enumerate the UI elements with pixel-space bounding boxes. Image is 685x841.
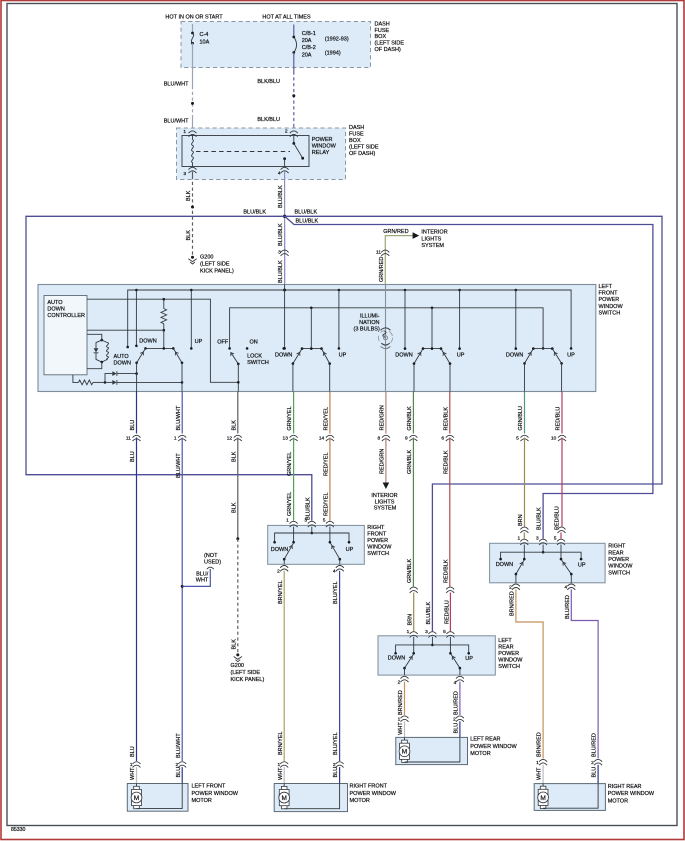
junction BLU/BLK main bbox=[283, 215, 286, 218]
svg-text:20A: 20A bbox=[302, 52, 312, 58]
resistor R2 (controller output) bbox=[73, 375, 106, 385]
svg-text:POWER: POWER bbox=[498, 651, 519, 657]
wire RED/GRN pin 8 stub bbox=[385, 392, 387, 434]
label LEFT FRONT POWER WINDOW SWITCH bbox=[599, 284, 624, 317]
svg-text:WHT: WHT bbox=[278, 767, 284, 780]
wire BLU/BLK second feed to right rear switch pin 3 bbox=[285, 216, 653, 538]
right rear power window motor box bbox=[534, 784, 605, 811]
svg-text:2: 2 bbox=[285, 129, 288, 135]
svg-text:RIGHT REAR: RIGHT REAR bbox=[608, 784, 642, 790]
svg-text:FUSE: FUSE bbox=[349, 131, 364, 137]
svg-text:3: 3 bbox=[536, 535, 539, 541]
label DASH FUSE BOX (LEFT SIDE OF DASH) top bbox=[375, 21, 405, 53]
svg-text:14: 14 bbox=[319, 436, 325, 442]
connector pin 10 (RED/BLU) below left front switch bbox=[551, 435, 566, 441]
auto down controller box bbox=[44, 296, 87, 375]
svg-text:2: 2 bbox=[398, 680, 401, 686]
wire BLK/BLU breaker to relay pin 2 bbox=[257, 53, 295, 132]
left rear power window switch box bbox=[378, 636, 495, 675]
svg-text:RELAY: RELAY bbox=[312, 150, 330, 156]
svg-text:WINDOW: WINDOW bbox=[498, 657, 523, 663]
illumination lamps (3 bulbs) bbox=[378, 285, 392, 392]
svg-text:BLU/BLK: BLU/BLK bbox=[305, 497, 311, 520]
svg-text:5: 5 bbox=[554, 535, 557, 541]
svg-text:WINDOW: WINDOW bbox=[312, 144, 337, 150]
svg-text:1: 1 bbox=[398, 717, 401, 723]
svg-text:BLU/RED: BLU/RED bbox=[565, 595, 571, 619]
svg-text:3: 3 bbox=[183, 171, 186, 177]
right rear switch arm DOWN side bbox=[515, 560, 525, 583]
svg-text:10: 10 bbox=[551, 436, 557, 442]
svg-text:(3 BULBS): (3 BULBS) bbox=[354, 326, 380, 332]
svg-text:WINDOW: WINDOW bbox=[367, 545, 392, 551]
svg-text:INTERIOR: INTERIOR bbox=[371, 493, 397, 499]
svg-text:BRN: BRN bbox=[518, 514, 524, 526]
svg-text:HOT AT ALL TIMES: HOT AT ALL TIMES bbox=[262, 14, 311, 20]
svg-text:12: 12 bbox=[227, 436, 233, 442]
svg-text:GRN/BLK: GRN/BLK bbox=[407, 450, 413, 474]
svg-text:BLK: BLK bbox=[231, 451, 237, 462]
label DASH FUSE BOX (LEFT SIDE OF DASH) relay bbox=[349, 125, 379, 157]
connector pin 11 (BLU) below left front switch bbox=[126, 435, 141, 441]
right front motor wire connector BLU (pin 2) bbox=[333, 762, 344, 784]
svg-text:3: 3 bbox=[425, 629, 428, 635]
svg-text:M: M bbox=[281, 795, 286, 802]
svg-text:MOTOR: MOTOR bbox=[350, 798, 370, 804]
svg-text:BLU: BLU bbox=[454, 723, 460, 734]
motor M left rear bbox=[399, 737, 460, 762]
svg-text:BLU/RED: BLU/RED bbox=[454, 691, 460, 715]
svg-text:USED): USED) bbox=[204, 560, 221, 566]
svg-text:RED/BLK: RED/BLK bbox=[443, 559, 449, 583]
right rear switch pin 5 entry bbox=[554, 535, 565, 545]
svg-text:BLU/YEL: BLU/YEL bbox=[333, 581, 339, 604]
svg-text:WINDOW: WINDOW bbox=[608, 564, 633, 570]
svg-text:4: 4 bbox=[454, 680, 457, 686]
right rear switch pin 1 entry bbox=[518, 535, 529, 545]
node main feed into box (pin 3 entry) bbox=[283, 285, 286, 350]
label GRN/BLU above pin 5 bbox=[518, 406, 524, 430]
svg-text:BLK: BLK bbox=[186, 190, 192, 201]
label LEFT REAR POWER WINDOW MOTOR bbox=[470, 736, 517, 757]
label GRN/YEL above pin 13 bbox=[287, 406, 293, 430]
svg-text:INTERIOR: INTERIOR bbox=[421, 229, 447, 235]
label RED/YEL above pin 14 bbox=[324, 407, 330, 431]
label GRN/BLK above pin 9 bbox=[407, 406, 413, 430]
svg-text:BLK: BLK bbox=[186, 230, 192, 241]
svg-text:UP: UP bbox=[567, 353, 575, 359]
svg-text:POWER: POWER bbox=[367, 538, 388, 544]
connector pin 14 (RED/YEL) below left front switch bbox=[319, 435, 334, 441]
svg-text:BOX: BOX bbox=[349, 138, 361, 144]
svg-text:BLK: BLK bbox=[231, 639, 237, 650]
svg-text:BOX: BOX bbox=[375, 34, 387, 40]
label RIGHT FRONT POWER WINDOW MOTOR bbox=[350, 784, 397, 805]
wire RED/BLK pin 6 to left rear switch pin 5 (becomes RED/BLU) bbox=[443, 438, 454, 632]
svg-text:BRN/RED: BRN/RED bbox=[398, 690, 404, 715]
connector pin 13 (GRN/YEL) below left front switch bbox=[283, 435, 298, 441]
right front window control rocker bbox=[292, 308, 331, 392]
svg-text:20A: 20A bbox=[302, 38, 312, 44]
wire GRN/BLU pin 5 stub bbox=[524, 392, 526, 434]
label RED/GRN above pin 8 bbox=[380, 405, 386, 430]
svg-text:BRN/RED: BRN/RED bbox=[537, 732, 543, 757]
svg-text:C/B-2: C/B-2 bbox=[302, 45, 316, 51]
svg-text:SWITCH: SWITCH bbox=[608, 570, 630, 576]
svg-text:UP: UP bbox=[346, 547, 354, 553]
svg-text:5: 5 bbox=[323, 518, 326, 524]
svg-text:DASH: DASH bbox=[375, 21, 390, 27]
svg-text:2: 2 bbox=[277, 569, 280, 575]
svg-text:POWER: POWER bbox=[599, 297, 620, 303]
svg-text:SYSTEM: SYSTEM bbox=[421, 243, 444, 249]
svg-text:BLU/RED: BLU/RED bbox=[592, 733, 598, 757]
relay coil bbox=[192, 136, 194, 167]
svg-text:(LEFT SIDE: (LEFT SIDE bbox=[349, 144, 379, 150]
svg-text:DASH: DASH bbox=[349, 125, 364, 131]
svg-text:4: 4 bbox=[564, 585, 567, 591]
svg-text:GRN/BLK: GRN/BLK bbox=[407, 559, 413, 583]
lock switch OFF/ON bbox=[217, 339, 269, 391]
wire BLU/YEL right front switch pin 4 to right front motor bbox=[333, 571, 339, 761]
stub BLU/WHT not used bbox=[181, 553, 222, 588]
wire RED/BLK pin 6 stub bbox=[449, 392, 451, 434]
svg-text:G200: G200 bbox=[200, 254, 213, 260]
right front switch pin 5 entry bbox=[323, 518, 334, 528]
svg-text:5: 5 bbox=[443, 629, 446, 635]
svg-text:RED/BLU: RED/BLU bbox=[444, 600, 450, 624]
svg-text:BRN/YEL: BRN/YEL bbox=[278, 731, 284, 755]
wire RED/GRN pin 8 to interior lights system bbox=[380, 438, 390, 490]
connector pin 6 (RED/BLK) below left front switch bbox=[441, 435, 453, 441]
svg-text:85330: 85330 bbox=[11, 827, 26, 833]
svg-text:BLU/BLK: BLU/BLK bbox=[537, 507, 543, 530]
svg-text:SYSTEM: SYSTEM bbox=[374, 506, 397, 512]
connector pin 5 (GRN/BLU) below left front switch bbox=[516, 435, 528, 441]
svg-text:(NOT: (NOT bbox=[204, 553, 218, 559]
svg-text:LOCK: LOCK bbox=[247, 353, 262, 359]
label BLU/BLK above left rear switch pin 3 bbox=[426, 602, 432, 625]
left rear switch pin 3 entry bbox=[425, 629, 436, 638]
svg-text:REAR: REAR bbox=[498, 644, 513, 650]
wire BLK pin 12 stub bbox=[237, 392, 239, 434]
svg-text:OF DASH): OF DASH) bbox=[349, 151, 375, 157]
right front switch pin 4 exit bbox=[333, 566, 344, 575]
power window relay (dashed dash-fuse-box outline) bbox=[177, 128, 346, 180]
right front switch arm UP side bbox=[330, 543, 341, 565]
label INTERIOR LIGHTS SYSTEM top bbox=[421, 229, 447, 249]
label HOT IN ON OR START bbox=[165, 14, 223, 20]
svg-text:LEFT FRONT: LEFT FRONT bbox=[192, 784, 226, 790]
connector pin 12 (BLK) below left front switch bbox=[227, 435, 242, 441]
right front switch internal contacts bbox=[271, 527, 354, 553]
wire BLU/BLK junction to left front switch pin 3 bbox=[278, 216, 288, 290]
svg-text:RED/YEL: RED/YEL bbox=[324, 492, 330, 516]
svg-text:BLU/: BLU/ bbox=[196, 571, 209, 577]
svg-text:1: 1 bbox=[278, 762, 281, 768]
relay pin 3 bbox=[183, 167, 196, 177]
svg-text:DOWN: DOWN bbox=[271, 547, 288, 553]
label HOT AT ALL TIMES bbox=[262, 14, 311, 20]
label POWER WINDOW RELAY bbox=[312, 137, 337, 156]
svg-text:C-4: C-4 bbox=[200, 32, 209, 38]
svg-text:UP: UP bbox=[195, 339, 203, 345]
left front power window motor box bbox=[127, 784, 188, 812]
svg-text:OFF: OFF bbox=[217, 339, 229, 345]
svg-text:BLU: BLU bbox=[130, 420, 136, 431]
svg-text:LIGHTS: LIGHTS bbox=[421, 236, 441, 242]
svg-text:C/B-1: C/B-1 bbox=[302, 31, 316, 37]
svg-text:BLU: BLU bbox=[592, 767, 598, 778]
svg-text:KICK PANEL): KICK PANEL) bbox=[200, 268, 234, 274]
svg-text:BLK: BLK bbox=[231, 420, 237, 431]
relay pin 4 bbox=[278, 167, 289, 176]
svg-text:BLU/BLK: BLU/BLK bbox=[243, 209, 266, 215]
bus wire switched common (third bus) bbox=[228, 307, 544, 350]
svg-text:MOTOR: MOTOR bbox=[608, 798, 628, 804]
svg-text:BLU/WHT: BLU/WHT bbox=[164, 119, 189, 125]
svg-text:RED/GRN: RED/GRN bbox=[380, 405, 386, 430]
svg-text:HOT IN ON OR START: HOT IN ON OR START bbox=[165, 14, 223, 20]
bus wire controller feed (second bus) bbox=[87, 298, 238, 382]
left rear power window motor box bbox=[396, 737, 468, 764]
svg-text:10A: 10A bbox=[200, 40, 210, 46]
svg-text:WHT: WHT bbox=[537, 767, 543, 780]
wire BRN/RED right rear switch pin 2 to right rear motor (becomes WHT) bbox=[510, 589, 548, 783]
svg-text:AUTO: AUTO bbox=[114, 354, 130, 360]
wire GRN/RED to interior lights system bbox=[376, 229, 419, 284]
fuse C-4 10A bbox=[191, 24, 210, 46]
label BLU above pin 11 bbox=[130, 420, 136, 431]
svg-text:GRN/RED: GRN/RED bbox=[379, 257, 385, 282]
label RED/BLU above pin 10 bbox=[556, 407, 562, 431]
right rear switch internal contacts bbox=[496, 545, 586, 569]
svg-text:WHT: WHT bbox=[130, 767, 136, 780]
left rear switch pin 1 entry bbox=[407, 629, 418, 638]
svg-text:GRN/YEL: GRN/YEL bbox=[287, 452, 293, 476]
svg-text:BRN/YEL: BRN/YEL bbox=[278, 580, 284, 604]
connector pin 1 (BLU/WHT) below left front switch bbox=[174, 435, 186, 441]
ground G200 (left side kick panel) lower bbox=[231, 653, 265, 683]
label LEFT FRONT POWER WINDOW MOTOR bbox=[192, 784, 239, 805]
svg-text:1: 1 bbox=[407, 629, 410, 635]
right rear window control contacts DOWN/UP bbox=[506, 290, 575, 359]
svg-text:BLU/WHT: BLU/WHT bbox=[176, 405, 182, 430]
auto down relay coil and diode D1 bbox=[87, 334, 131, 368]
svg-text:WHT: WHT bbox=[398, 722, 404, 735]
svg-text:FRONT: FRONT bbox=[367, 531, 387, 537]
svg-text:MOTOR: MOTOR bbox=[192, 798, 212, 804]
label BLU/BLK right of junction lower bbox=[296, 219, 319, 225]
svg-text:1: 1 bbox=[518, 535, 521, 541]
svg-text:POWER WINDOW: POWER WINDOW bbox=[192, 791, 239, 797]
left rear switch pin 2 exit bbox=[398, 676, 409, 685]
relay contact switch bbox=[283, 136, 304, 167]
svg-text:POWER WINDOW: POWER WINDOW bbox=[608, 791, 655, 797]
svg-text:DOWN: DOWN bbox=[139, 338, 156, 344]
svg-text:LEFT REAR: LEFT REAR bbox=[470, 736, 500, 742]
svg-text:(LEFT SIDE: (LEFT SIDE bbox=[375, 41, 405, 47]
label BLU/BLK left of junction bbox=[243, 209, 266, 215]
svg-text:GRN/BLK: GRN/BLK bbox=[407, 406, 413, 430]
left rear window control rocker bbox=[413, 308, 452, 392]
svg-text:BLK/BLU: BLK/BLU bbox=[257, 79, 280, 85]
svg-text:FRONT: FRONT bbox=[599, 291, 619, 297]
resistor R1 (driver window feed) bbox=[161, 299, 167, 348]
svg-text:UP: UP bbox=[339, 353, 347, 359]
svg-text:FUSE: FUSE bbox=[375, 28, 390, 34]
svg-text:SWITCH: SWITCH bbox=[367, 551, 389, 557]
wire BLK pin 12 to G200 bbox=[231, 438, 239, 654]
svg-text:GRN/BLU: GRN/BLU bbox=[518, 406, 524, 430]
svg-text:13: 13 bbox=[283, 436, 289, 442]
svg-text:DOWN: DOWN bbox=[388, 656, 405, 662]
svg-text:M: M bbox=[402, 749, 407, 756]
svg-text:BLU/WHT: BLU/WHT bbox=[176, 453, 182, 478]
left front motor wire connector WHT (pin 1) bbox=[130, 762, 141, 784]
svg-text:RED/YEL: RED/YEL bbox=[324, 452, 330, 476]
svg-text:OF DASH): OF DASH) bbox=[375, 47, 401, 53]
svg-text:GRN/RED: GRN/RED bbox=[383, 229, 408, 235]
motor M left front bbox=[131, 784, 182, 809]
right front switch pin 3 entry bbox=[304, 518, 315, 528]
svg-text:BLU/BLK: BLU/BLK bbox=[426, 602, 432, 625]
driver window switch rocker bbox=[135, 347, 183, 391]
label LEFT REAR POWER WINDOW SWITCH bbox=[498, 638, 523, 670]
right rear switch pin 2 exit bbox=[509, 584, 520, 591]
connector pin 8 (RED/GRN) below left front switch bbox=[378, 435, 390, 441]
motor M right rear bbox=[538, 784, 598, 809]
svg-text:RED/BLU: RED/BLU bbox=[555, 506, 561, 530]
right rear window control rocker bbox=[523, 347, 563, 391]
svg-text:BLK/BLU: BLK/BLU bbox=[257, 117, 280, 123]
svg-text:GRN/YEL: GRN/YEL bbox=[287, 406, 293, 430]
svg-text:BLU/BLK: BLU/BLK bbox=[295, 209, 318, 215]
right front switch pin 1 entry bbox=[286, 518, 297, 528]
left rear switch pin 4 exit bbox=[454, 676, 464, 686]
svg-text:(LEFT SIDE: (LEFT SIDE bbox=[231, 670, 261, 676]
relay pin 1 bbox=[183, 129, 196, 137]
left rear switch arm DOWN side bbox=[403, 654, 414, 675]
svg-text:LIGHTS: LIGHTS bbox=[375, 499, 395, 505]
right rear switch pin 4 exit bbox=[564, 584, 575, 591]
wire BLU pin 11 stub bbox=[136, 392, 138, 434]
wire GRN/BLK pin 9 to left rear switch pin 1 (becomes BRN) bbox=[407, 438, 418, 632]
label BLU/BLK above right rear switch pin 3 bbox=[537, 507, 543, 530]
bus wire B+ feed (top bus) bbox=[126, 289, 572, 350]
wire BLU/WHT pin 1 stub bbox=[181, 392, 183, 434]
svg-text:RIGHT: RIGHT bbox=[608, 544, 626, 550]
wire BRN/RED left rear switch pin 2 to left rear motor (becomes WHT) bbox=[398, 682, 409, 738]
wire GRN/YEL pin 13 stub bbox=[293, 392, 295, 434]
dash fuse box (top, hot feeds) bbox=[181, 22, 371, 68]
svg-text:POWER WINDOW: POWER WINDOW bbox=[350, 791, 397, 797]
wire RED/YEL pin 14 stub bbox=[329, 392, 331, 434]
left rear switch pin 5 entry bbox=[443, 629, 454, 638]
label RED/BLK above pin 6 bbox=[443, 407, 449, 431]
svg-text:BLU/BLK: BLU/BLK bbox=[278, 260, 284, 283]
wire BLK relay pin 3 to G200 bbox=[186, 172, 194, 256]
circuit breaker C/B-1 / C/B-2 20A bbox=[292, 25, 348, 59]
svg-text:1: 1 bbox=[174, 436, 177, 442]
relay pin 2 bbox=[285, 129, 298, 137]
svg-text:WINDOW: WINDOW bbox=[599, 304, 624, 310]
label BLU/BLK above right front switch pin 3 bbox=[305, 497, 311, 520]
svg-text:2: 2 bbox=[591, 760, 594, 766]
svg-text:BLU/BLK: BLU/BLK bbox=[278, 223, 284, 246]
left front motor wire connector BLU (pin 2) bbox=[176, 762, 187, 784]
svg-text:(1992-93): (1992-93) bbox=[325, 36, 349, 42]
svg-text:BLU/WHT: BLU/WHT bbox=[176, 733, 182, 758]
svg-text:2: 2 bbox=[509, 585, 512, 591]
wire BLU pin 11 to left front motor bbox=[130, 438, 136, 762]
wire controller to resistor bottom bbox=[87, 329, 164, 331]
label RIGHT REAR POWER WINDOW MOTOR bbox=[608, 784, 655, 805]
diode D2 (upper) bbox=[105, 371, 138, 382]
svg-text:1: 1 bbox=[536, 760, 539, 766]
svg-text:DOWN: DOWN bbox=[275, 353, 292, 359]
svg-text:BLU: BLU bbox=[333, 767, 339, 778]
svg-text:BLU/BLK: BLU/BLK bbox=[278, 185, 284, 208]
svg-text:UP: UP bbox=[578, 563, 586, 569]
svg-text:SWITCH: SWITCH bbox=[498, 664, 520, 670]
svg-text:DOWN: DOWN bbox=[395, 353, 412, 359]
svg-text:BLU/YEL: BLU/YEL bbox=[333, 732, 339, 755]
label BLU/BLK right of junction upper bbox=[295, 209, 318, 215]
svg-text:AUTO: AUTO bbox=[47, 300, 63, 306]
label RIGHT FRONT POWER WINDOW SWITCH bbox=[367, 525, 392, 557]
relay actuating dashed link bbox=[196, 151, 290, 153]
svg-text:MOTOR: MOTOR bbox=[470, 751, 490, 757]
svg-text:11: 11 bbox=[126, 436, 131, 442]
svg-text:LEFT: LEFT bbox=[498, 638, 512, 644]
svg-text:9: 9 bbox=[405, 436, 408, 442]
svg-text:NATION: NATION bbox=[359, 320, 379, 326]
right rear switch arm UP side bbox=[561, 560, 572, 583]
svg-text:6: 6 bbox=[441, 436, 444, 442]
svg-text:BLK: BLK bbox=[231, 502, 237, 513]
right front window control contacts DOWN/UP bbox=[275, 290, 347, 359]
svg-text:3: 3 bbox=[278, 250, 281, 256]
svg-text:DOWN: DOWN bbox=[506, 353, 523, 359]
svg-text:BRN: BRN bbox=[408, 614, 414, 626]
wire BLU/WHT fuse C-4 to relay pin 1 bbox=[164, 43, 194, 131]
svg-text:8: 8 bbox=[378, 436, 381, 442]
left rear switch internal contacts bbox=[388, 637, 473, 662]
motor M right front bbox=[279, 784, 340, 809]
svg-text:BLU: BLU bbox=[130, 451, 136, 462]
svg-text:4: 4 bbox=[278, 171, 281, 177]
wire RED/BLU pin 10 to right rear switch pin 5 bbox=[555, 438, 566, 539]
svg-text:BRN/RED: BRN/RED bbox=[510, 591, 516, 616]
label BLU/WHT above pin 1 bbox=[176, 405, 182, 430]
connector pin 9 (GRN/BLK) below left front switch bbox=[405, 435, 417, 441]
svg-text:CONTROLLER: CONTROLLER bbox=[47, 313, 85, 319]
wire BRN/YEL right front switch pin 2 to right front motor bbox=[278, 571, 284, 761]
svg-text:DOWN: DOWN bbox=[114, 361, 131, 367]
svg-text:ILLUMI-: ILLUMI- bbox=[360, 313, 380, 319]
sheet number 85330 bbox=[11, 827, 26, 833]
wire BLU/BLK loop feed: left wrap to right front switch pin 3 / right wrap to left rear switch pin 3 bbox=[26, 216, 662, 631]
wire BLU/RED right rear switch pin 4 to right rear motor (becomes BLU) bbox=[565, 589, 602, 783]
wire GRN/BLU pin 5 to right rear switch pin 1 (becomes BRN) bbox=[518, 438, 529, 539]
svg-text:RED/BLU: RED/BLU bbox=[556, 407, 562, 431]
svg-text:G200: G200 bbox=[231, 663, 244, 669]
svg-text:(LEFT SIDE: (LEFT SIDE bbox=[200, 261, 230, 267]
svg-text:(1994): (1994) bbox=[325, 51, 341, 57]
ground G200 (left side kick panel) upper bbox=[188, 254, 234, 274]
svg-text:11: 11 bbox=[376, 250, 381, 256]
